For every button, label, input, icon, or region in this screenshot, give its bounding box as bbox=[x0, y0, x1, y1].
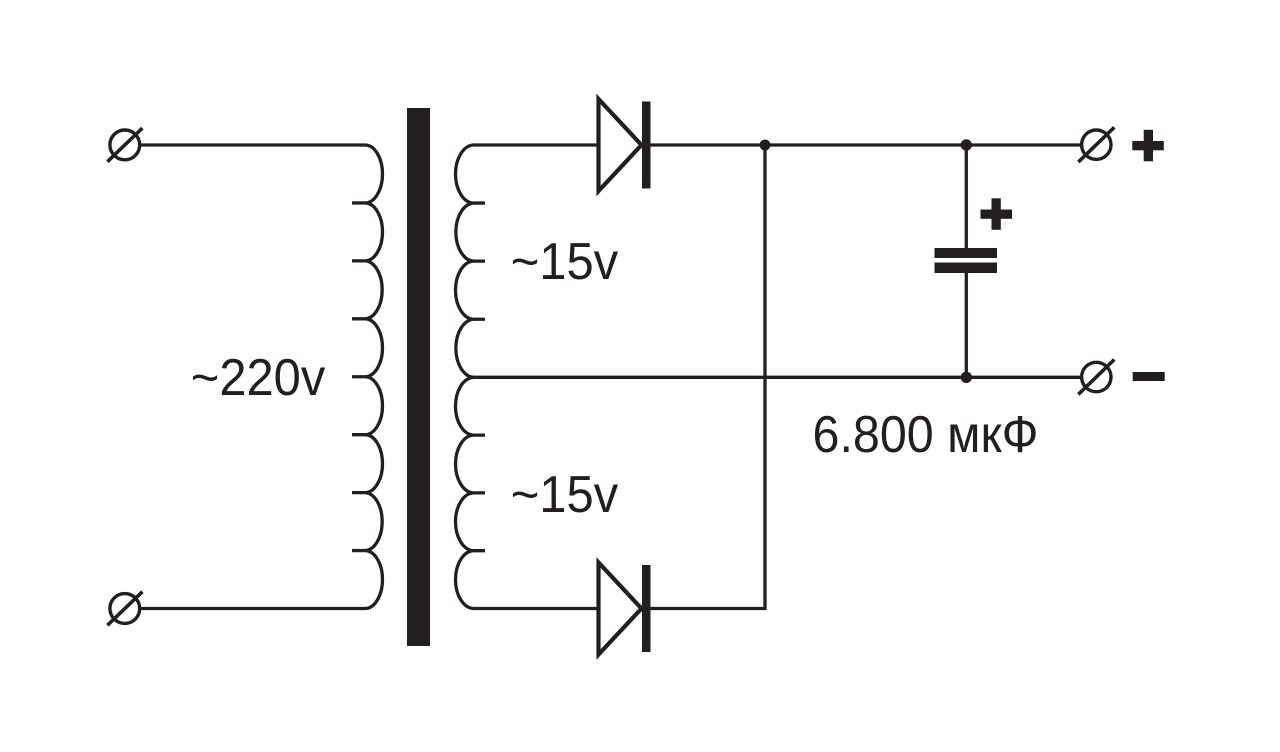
wire capacitor lower lead bbox=[965, 273, 968, 377]
capacitor C1 top plate bbox=[935, 248, 998, 258]
wire capacitor upper lead bbox=[965, 145, 968, 249]
node A junction dot bbox=[760, 140, 771, 151]
wire top-left (J1 to primary) bbox=[141, 143, 365, 146]
diode D2 cathode bar bbox=[642, 565, 651, 652]
diode D1 cathode bar bbox=[642, 102, 651, 189]
transformer T1 secondary winding lower (~15v) bbox=[455, 377, 485, 608]
svg-text:~15v: ~15v bbox=[511, 233, 619, 291]
svg-text:6.800 мкФ: 6.800 мкФ bbox=[813, 406, 1039, 464]
label plus sign at J3 bbox=[1132, 130, 1164, 162]
label minus sign at J4 bbox=[1133, 372, 1165, 381]
terminal J2 (AC input bottom) bbox=[107, 592, 142, 626]
terminal J1 (AC input top) bbox=[107, 128, 142, 162]
diode D2 anode triangle bbox=[599, 563, 642, 655]
wire secondary bottom to diode D2 bbox=[474, 607, 599, 610]
node B junction dot (capacitor top) bbox=[961, 139, 972, 150]
transformer T1 core bbox=[407, 108, 430, 646]
svg-text:~15v: ~15v bbox=[511, 466, 619, 524]
terminal J4 (output minus) bbox=[1078, 360, 1114, 395]
wire secondary top to diode D1 bbox=[474, 143, 599, 146]
capacitor C1 bottom plate bbox=[935, 263, 998, 274]
capacitor C1 polarity plus bbox=[981, 198, 1013, 230]
transformer T1 secondary winding upper (~15v) bbox=[456, 145, 486, 377]
transformer T1 primary winding bbox=[352, 145, 383, 609]
diode D1 anode triangle bbox=[599, 99, 642, 191]
wire bottom-left (J2 to primary) bbox=[141, 607, 365, 610]
wire vertical from node A down to D2 output bbox=[651, 145, 766, 609]
wire D1 to node A bbox=[651, 143, 1082, 146]
node C junction dot (capacitor bottom) bbox=[961, 372, 972, 383]
wire center tap to minus terminal bbox=[474, 376, 1082, 379]
svg-text:~220v: ~220v bbox=[191, 349, 325, 407]
terminal J3 (output plus) bbox=[1078, 127, 1114, 162]
